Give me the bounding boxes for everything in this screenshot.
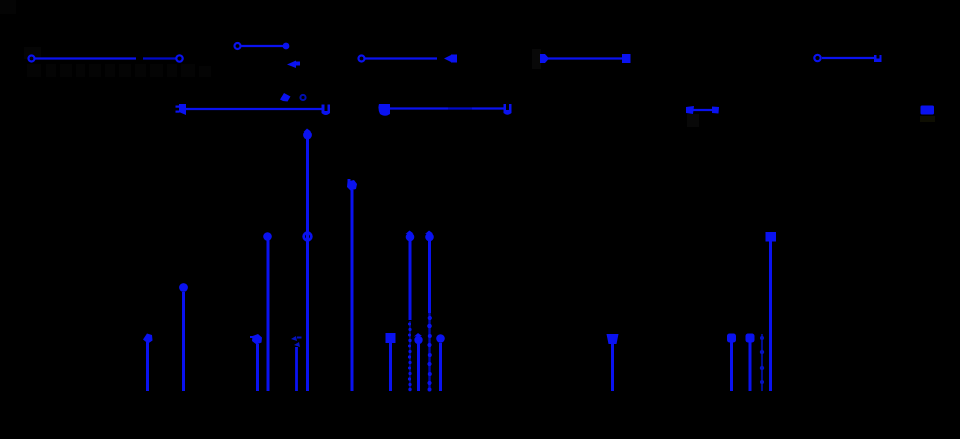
node S6 top	[303, 131, 312, 140]
pad P1	[921, 106, 935, 115]
arrow node wire W3 right	[444, 55, 457, 63]
pad node wire W4 right	[622, 54, 631, 63]
node S1 top	[143, 334, 153, 344]
node S10 crown	[414, 333, 422, 337]
faint value text under wire W1	[27, 64, 211, 77]
pad node wire W5 right	[874, 55, 882, 62]
faint component body left of wire W4	[532, 49, 541, 69]
stem net S4	[267, 240, 270, 391]
node S3 top	[252, 334, 262, 345]
wire W7	[390, 107, 504, 109]
stem net S5	[295, 347, 298, 391]
pin node wire W8 left	[686, 106, 694, 114]
node S13 top	[607, 334, 619, 344]
stem net S9	[409, 241, 412, 320]
node S7 notch	[348, 179, 351, 182]
beaded net S11 lower	[427, 313, 432, 392]
stem net S11	[428, 241, 431, 313]
pin ring wire W1 left	[29, 56, 35, 62]
node S6 crown	[304, 129, 312, 133]
node S8 top	[386, 333, 396, 343]
junction ring S6 mid	[304, 233, 312, 241]
stem net S14	[730, 342, 733, 391]
node S17 top	[766, 232, 777, 242]
stem net S2	[182, 292, 185, 391]
node S7 top	[347, 180, 357, 191]
arrow marker A2	[280, 93, 291, 102]
pin node wire W8 right	[712, 107, 719, 114]
wire W6	[185, 108, 322, 110]
node S5 marks	[291, 336, 302, 347]
node S4 top	[263, 232, 272, 241]
faint label under pad P1	[920, 116, 935, 122]
faint component body top-left	[0, 0, 16, 14]
stem net S7	[351, 190, 354, 391]
pin ring R2	[300, 95, 305, 100]
node S9 top	[406, 233, 415, 242]
wire W2	[241, 45, 283, 47]
node S3 spike	[250, 336, 254, 338]
pad node wire W7 right	[504, 104, 512, 115]
stem net S13	[611, 344, 614, 391]
pin ring wire W3 left	[359, 56, 365, 62]
wire W3	[365, 57, 437, 59]
pin node wire W7 left	[378, 104, 390, 116]
faint component body under wire W8	[687, 114, 699, 127]
faint component body behind wire W1 left pin	[24, 47, 41, 59]
stem net S15	[749, 342, 752, 391]
stem net S6	[306, 139, 309, 391]
node S11 crown	[425, 231, 433, 235]
node S15 top	[746, 334, 755, 343]
stem net S3	[256, 344, 259, 391]
stem net S17	[769, 241, 772, 391]
pin ring wire W5 left	[814, 55, 820, 61]
wire W1	[35, 57, 176, 59]
node S14 top	[727, 334, 736, 343]
wire W4	[545, 57, 623, 59]
wire W8	[692, 109, 714, 111]
junction node wire W2 right	[283, 43, 290, 50]
arrow marker A1	[287, 61, 300, 69]
pad node wire W6 right	[322, 105, 331, 116]
pin ring wire W1 right	[176, 55, 182, 61]
node S10 top	[414, 336, 422, 344]
stem net S8	[389, 343, 392, 391]
pad node wire W4 left	[540, 54, 549, 63]
stem net S1	[146, 342, 149, 391]
wire W5	[822, 57, 874, 59]
node S9 crown	[406, 231, 414, 235]
node S12 top	[436, 334, 445, 343]
pin ring wire W2 left	[235, 43, 241, 49]
beaded net S16	[760, 334, 764, 391]
stem net S10	[417, 344, 420, 391]
stem net S12	[439, 343, 442, 391]
node S2 top	[179, 283, 188, 292]
dotted net S9 lower	[408, 321, 412, 391]
pin node wire W6 left	[176, 104, 187, 115]
node S11 top	[425, 233, 434, 242]
